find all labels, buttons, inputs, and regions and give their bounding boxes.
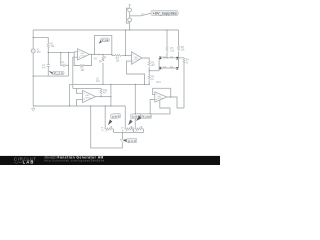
svg-text:V_in: V_in: [54, 72, 63, 75]
svg-text:LM741: LM741: [80, 55, 86, 57]
svg-text:gnd: gnd: [128, 139, 136, 143]
svg-text:+9V_supplies: +9V_supplies: [153, 12, 177, 16]
svg-text:LM741: LM741: [85, 97, 91, 99]
svg-text:V_out: V_out: [142, 114, 151, 118]
svg-text:V_sq: V_sq: [102, 39, 109, 42]
svg-text:http://circuitlab.com/cguepd3k: http://circuitlab.com/cguepd3kh8dhk: [44, 158, 104, 162]
svg-text:LM741: LM741: [157, 98, 163, 100]
svg-text:LAB: LAB: [23, 160, 35, 165]
svg-text:LM741: LM741: [134, 59, 140, 61]
svg-text:SIN: SIN: [37, 52, 41, 54]
svg-text:OA4: OA4: [156, 81, 161, 84]
